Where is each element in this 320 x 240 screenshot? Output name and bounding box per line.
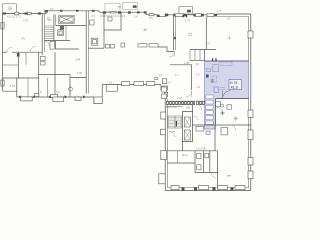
wall: room divider y49: [56, 41, 79, 49]
fixture box: [50, 42, 55, 50]
pier: [3, 12, 6, 14]
window box bottom b: [199, 186, 209, 190]
svg-text:2.08: 2.08: [75, 58, 81, 62]
pier: [173, 14, 175, 17]
wall: desk to entrance wall: [158, 47, 175, 52]
svg-text:1.0: 1.0: [217, 9, 221, 13]
wall: right wing top edge: [167, 14, 251, 16]
window bay on step c: [164, 92, 167, 96]
svg-text:1.7: 1.7: [175, 73, 179, 77]
wall: top-right room left x206.3: [205, 17, 207, 50]
wall: y25.5 under shaft: [56, 25, 87, 27]
wall: step at x=16.8: [3, 91, 17, 97]
pier: [201, 14, 204, 17]
svg-text:шч: шч: [227, 173, 231, 177]
svg-text:2.0: 2.0: [50, 7, 54, 11]
closet divider: [190, 50, 200, 61]
pier on entrance wall: [174, 37, 176, 39]
svg-text:М2: М2: [187, 106, 191, 110]
box 2: [111, 45, 115, 49]
wall: bottom edge inner: [168, 187, 249, 189]
wall: vertical x215 below y125: [214, 125, 216, 151]
svg-text:1.0: 1.0: [227, 17, 231, 21]
dark cross mark: [221, 111, 225, 115]
WC room right of stairs: [58, 30, 64, 36]
window bay on step b: [163, 86, 168, 90]
stair box: [206, 100, 213, 104]
toilet fixture: [91, 38, 98, 45]
pier: [38, 12, 41, 14]
room symbol: [189, 33, 192, 36]
svg-text:0.5: 0.5: [48, 18, 52, 22]
blue room top wall detail: [205, 60, 249, 62]
wall: elevator right x184.6-193: [183, 112, 193, 142]
toilet circle: [221, 104, 224, 107]
wall: divider x177.5: [177, 151, 179, 163]
wall: right wing top edge inner line (thick wall): [217, 16, 249, 18]
pier: [144, 11, 147, 13]
small box left of step: [155, 77, 158, 79]
svg-text:2.0: 2.0: [92, 14, 96, 18]
svg-text:7.97: 7.97: [23, 19, 29, 23]
pier: [45, 10, 48, 12]
svg-text:1.6: 1.6: [196, 73, 200, 77]
window bay left edge d: [159, 174, 165, 184]
wall: y163 partition: [167, 162, 195, 164]
window box: [195, 14, 201, 17]
window box bottom d: [235, 186, 245, 190]
tick on wall: [76, 10, 78, 12]
window box: [207, 14, 214, 17]
corridor walls above hatch: [170, 64, 192, 66]
door arc entrance: [169, 52, 175, 58]
wall: left wing bottom edge west part: [17, 96, 94, 98]
stair arrow dark: [175, 121, 177, 126]
window box right wall a: [248, 158, 253, 166]
svg-text:*03: *03: [117, 5, 121, 9]
stairs treads left wing: [44, 26, 54, 39]
pier at step x157: [157, 15, 160, 17]
door marks blue top: [213, 58, 216, 61]
window box: [15, 12, 19, 15]
elevator cab 1: [184, 117, 190, 127]
canopy faint box x122: [123, 3, 138, 10]
blue room fill: [205, 61, 249, 129]
window bay on step: [163, 79, 167, 84]
bay window below wall b: [53, 97, 64, 102]
radiator boxes left edge: [162, 87, 167, 92]
wall: right edge inner: [248, 17, 250, 188]
wall: divider x66: [65, 26, 67, 41]
wall: divider x26: [25, 52, 27, 65]
wall: blue bottom y98.6: [215, 98, 248, 100]
svg-text:41.9: 41.9: [231, 85, 238, 89]
wall: y125 across right wing: [193, 124, 251, 126]
wall: stair room top y106.3: [167, 105, 183, 107]
bay window below east wall: [106, 85, 117, 92]
door arc corridor: [7, 47, 12, 52]
wall: y172.4: [195, 171, 218, 173]
svg-text:дб: дб: [144, 28, 148, 32]
dim text: [47, 17, 49, 19]
wall: x217.6 vertical big room: [217, 151, 219, 188]
wall: horizontal y78 west: [3, 77, 39, 79]
door arc right of elevator: [194, 105, 202, 120]
canopy dark mark: [133, 5, 137, 7]
elevator cab 2: [184, 130, 190, 140]
svg-text:2.6: 2.6: [149, 16, 153, 20]
small box left edge c: [161, 151, 167, 160]
wall: divider x47.5 bottom band: [47, 78, 49, 97]
svg-text:Уч: Уч: [22, 37, 26, 41]
WC fixture: [59, 31, 62, 34]
toilet fixture c: [205, 153, 209, 157]
wall: horizontal y65 left: [3, 64, 19, 66]
pier: [103, 11, 106, 13]
window box east: [147, 82, 155, 86]
toilet fixture b: [197, 165, 201, 170]
furniture mark 3: [220, 62, 232, 65]
wall: horizontal y77.5 middle: [70, 77, 86, 79]
small tick: [211, 80, 214, 82]
wall: closets bottom y60: [190, 59, 205, 61]
window box right wall b: [248, 171, 253, 179]
hatched wall continuation: [197, 101, 205, 104]
window box: [149, 14, 154, 16]
wall: stair core left second line: [43, 14, 45, 53]
corridor vertical x192: [191, 65, 193, 90]
svg-text:ПР: ПР: [196, 63, 200, 67]
entrance canopy inner dark box: [187, 10, 191, 13]
window bay left edge a: [161, 112, 166, 119]
dark tick at step: [161, 87, 163, 89]
wall: x195 vertical: [194, 151, 196, 173]
wall: bottom-section left edge outer: [164, 100, 166, 191]
wall: stair right rail: [53, 15, 55, 42]
small box room 105-121: [108, 17, 112, 21]
small box below strip: [206, 131, 210, 134]
wall: x203.5 vertical: [203, 151, 205, 173]
wall: y150.8 across: [167, 150, 217, 152]
window box bottom c: [218, 186, 228, 190]
wall: horizontal y48: [88, 47, 104, 49]
wall: corridor y52 left part: [3, 51, 8, 53]
wall: below stairs horizontal: [44, 40, 70, 42]
fixture at x70: [69, 87, 73, 91]
stair treads: [168, 118, 181, 127]
bay window below wall west: [21, 97, 33, 101]
pier: [118, 11, 121, 13]
wall: top-center room vertical x121: [120, 12, 122, 30]
kitchen boxes: [196, 126, 204, 131]
boxes near x104 wall end: [106, 45, 110, 49]
window box: [28, 12, 32, 15]
stair bottom landing: [168, 127, 181, 129]
radiator 2: [162, 94, 167, 99]
canopy faint box over top wall x105: [105, 3, 120, 12]
window bay right edge mid2: [248, 130, 253, 140]
svg-text:1.96: 1.96: [77, 71, 83, 75]
wall: horizontal y74.6: [39, 74, 70, 76]
svg-text:1.7: 1.7: [168, 81, 172, 85]
wall: left wing bottom edge east part: [102, 84, 161, 86]
bottom wall dark ticks: [19, 96, 21, 98]
small fixture top: [90, 20, 94, 25]
svg-text:фо 2: фо 2: [182, 153, 188, 157]
pier: [92, 10, 95, 12]
furniture mark 2: [206, 69, 211, 72]
door arc through hatch gap: [217, 107, 222, 112]
svg-text:1.9 2.08: 1.9 2.08: [196, 147, 206, 151]
door jamb dark: [17, 53, 20, 57]
stair box: [206, 111, 213, 115]
door arc bottom rooms: [211, 172, 216, 177]
wall: entrance hall left x174.8: [173, 16, 175, 50]
wall: corridor y52: [12, 51, 42, 53]
porch mark: [8, 7, 12, 10]
door arc y125: [230, 125, 236, 131]
svg-text:2.0: 2.0: [56, 90, 60, 94]
svg-text:1.8: 1.8: [164, 96, 168, 100]
door arc corridor mid: [30, 46, 36, 52]
top-right room symbol: [228, 36, 231, 39]
small bay below wall c: [75, 97, 81, 101]
svg-text:2.97: 2.97: [177, 96, 183, 100]
wall: top-center room vertical x104: [103, 12, 105, 48]
toilet fixture a: [197, 153, 201, 158]
elevator shaft hatched box: [59, 15, 74, 23]
wall: divider second line: [87, 11, 89, 94]
stair block rails: [168, 116, 181, 128]
marks bottom-left of blue: [214, 87, 219, 93]
room below blue walls: [214, 99, 216, 125]
door arc corridor: [186, 91, 192, 97]
bottom wall piers: [182, 187, 185, 190]
pier: [165, 14, 168, 17]
hall desk boxes: [138, 44, 147, 47]
wall: left edge: [2, 14, 4, 92]
tick on wall: [60, 10, 62, 12]
stair boxes in blue strip: [206, 95, 213, 99]
wall: right of stair core: [55, 15, 57, 26]
window bay on left wall upper: [1, 23, 4, 30]
porch below wall: [94, 97, 102, 104]
window bay on left wall: [1, 80, 4, 86]
svg-text:1.74: 1.74: [185, 19, 191, 23]
wall: vertical x16.8 upper segment: [16, 78, 18, 91]
stair landing door arc: [170, 132, 176, 138]
wall: vertical x18.5: [18, 52, 20, 78]
wall: bottom edge outer: [165, 190, 251, 192]
pier: [25, 12, 28, 14]
wall: step from left wing to bottom section: [161, 85, 165, 100]
window in wall: [35, 93, 39, 96]
box x121: [121, 43, 125, 47]
wall: left wing top edge (stepped): [3, 11, 167, 16]
wall: x204.5 joining blue: [204, 50, 206, 62]
fixture box b: [227, 105, 231, 109]
door arc: [44, 41, 49, 46]
dark fixture below shaft: [60, 26, 64, 29]
wall: bottom-section left edge inner: [166, 100, 168, 188]
pier: [214, 14, 217, 17]
stair box: [206, 105, 213, 109]
window bay right edge upper: [248, 31, 253, 38]
window box east: [134, 82, 144, 86]
furniture marks in blue: [213, 65, 219, 72]
svg-text:4.0: 4.0: [206, 42, 210, 46]
window box east: [122, 82, 130, 86]
pier: [184, 14, 186, 17]
stair box: [206, 121, 213, 124]
wall: jog down at x=102: [94, 85, 102, 104]
wall: stair core left (double): [41, 14, 43, 56]
wall: right edge outer: [250, 14, 252, 191]
room cross symbol: [234, 116, 238, 120]
svg-text:1.76: 1.76: [10, 84, 16, 88]
fixture boxes room: [41, 56, 46, 60]
window box bottom a: [171, 186, 179, 190]
window bay right edge mid1: [248, 110, 253, 117]
entrance door marks: [183, 15, 187, 18]
wall: divider x28 bottom band: [27, 78, 29, 97]
dark jamb in blue: [206, 75, 209, 78]
wall: vertical x38.7 lower: [38, 52, 40, 97]
toilet room below blue: [216, 102, 221, 106]
door arc bottom of blue: [223, 91, 231, 99]
wall: closets top y49.5: [190, 49, 216, 51]
window gap mark: [110, 12, 116, 13]
svg-text:1.9: 1.9: [109, 80, 113, 84]
entrance canopy right wing: [179, 7, 192, 15]
svg-text:1.2: 1.2: [197, 85, 201, 89]
hatched corridor wall: [167, 101, 195, 104]
wall: vertical x55 lower: [54, 52, 56, 97]
fixture: [41, 62, 46, 65]
window bay left edge b: [160, 129, 165, 135]
wall: x184 vertical: [183, 105, 193, 151]
kitchen box 2: [221, 128, 228, 135]
wall: left wing long divider x87 (double): [85, 11, 87, 94]
window straddling wall: [51, 94, 58, 97]
svg-text:1.98: 1.98: [184, 61, 190, 65]
pier: [128, 11, 131, 13]
hall desk box 2: [149, 44, 158, 47]
fixture inner: [93, 40, 97, 44]
wall: vertical x70: [69, 75, 71, 97]
svg-text:2.6: 2.6: [134, 14, 138, 18]
label box: [229, 80, 242, 90]
svg-text:Н-78: Н-78: [230, 81, 237, 85]
wall: x209.8 vertical: [209, 151, 211, 173]
pier: [193, 14, 195, 17]
porch box top-left corner: [3, 4, 17, 14]
svg-text:2.0: 2.0: [159, 73, 163, 77]
stair box: [206, 116, 213, 120]
window box: [175, 14, 184, 17]
wall: horizontal y30: [104, 29, 121, 31]
svg-text:4.0 2.0 17.2: 4.0 2.0 17.2: [7, 15, 21, 19]
svg-text:2.90 1.90: 2.90 1.90: [166, 105, 177, 109]
pier: [137, 11, 140, 13]
extra furniture marks in blue: [213, 76, 225, 90]
